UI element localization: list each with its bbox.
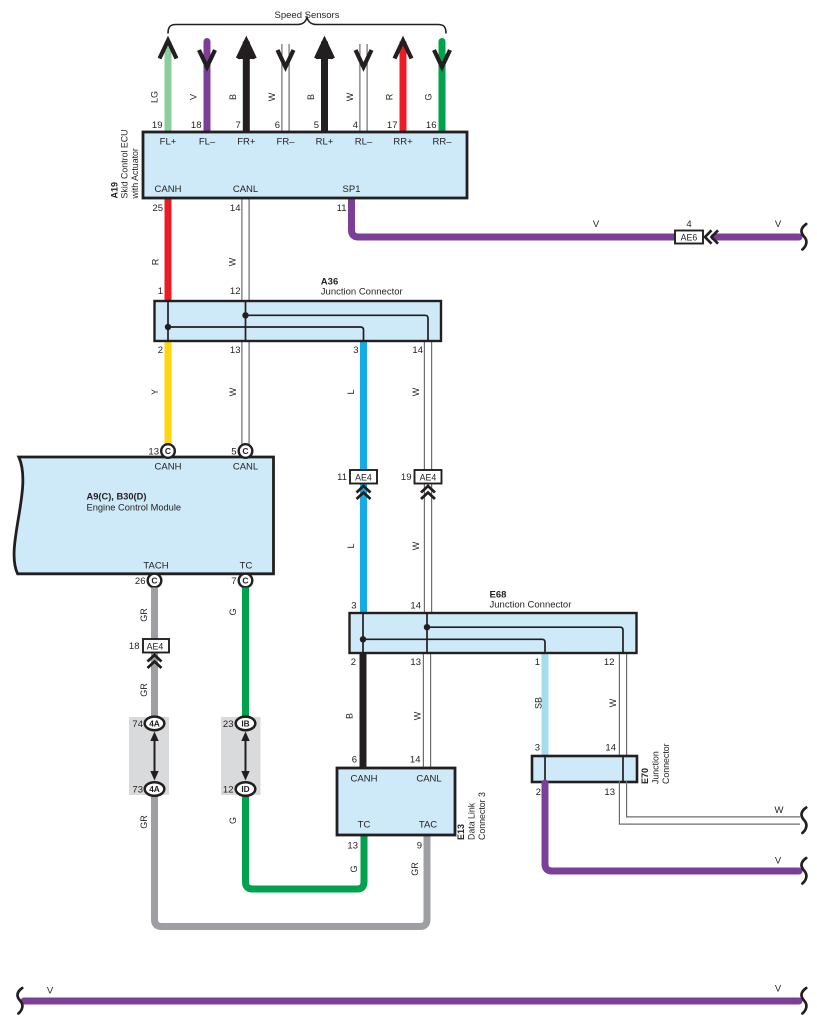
svg-text:B: B (306, 94, 316, 100)
svg-text:V: V (189, 94, 199, 100)
svg-text:G: G (228, 817, 238, 824)
svg-text:Skid Control ECU: Skid Control ECU (120, 130, 130, 199)
svg-text:SP1: SP1 (343, 184, 361, 195)
svg-text:12: 12 (604, 657, 615, 668)
svg-text:B: B (228, 94, 238, 100)
svg-text:Junction Connector: Junction Connector (321, 287, 403, 298)
svg-text:Data Link: Data Link (467, 802, 477, 840)
svg-text:E70: E70 (640, 768, 650, 784)
svg-text:2: 2 (158, 345, 163, 356)
svg-text:W: W (608, 698, 618, 707)
svg-text:G: G (228, 608, 238, 615)
svg-text:C: C (151, 576, 157, 586)
svg-text:14: 14 (410, 755, 421, 766)
svg-text:GR: GR (139, 608, 149, 622)
svg-text:5: 5 (314, 120, 319, 131)
svg-text:R: R (151, 258, 161, 265)
svg-text:V: V (47, 986, 54, 997)
svg-text:W: W (228, 387, 238, 396)
svg-text:AE6: AE6 (681, 233, 698, 243)
svg-text:CANL: CANL (416, 774, 441, 785)
svg-text:1: 1 (535, 657, 540, 668)
svg-text:18: 18 (129, 641, 140, 652)
svg-text:LG: LG (150, 91, 160, 103)
svg-text:Connector 3: Connector 3 (477, 792, 487, 840)
svg-text:RL+: RL+ (316, 137, 334, 148)
svg-text:V: V (775, 856, 782, 867)
svg-text:C: C (165, 446, 171, 456)
svg-text:R: R (385, 93, 395, 100)
svg-text:16: 16 (426, 120, 437, 131)
svg-text:3: 3 (353, 345, 358, 356)
svg-text:TC: TC (358, 820, 371, 831)
svg-text:ID: ID (241, 784, 249, 794)
svg-text:GR: GR (139, 683, 149, 697)
svg-text:4A: 4A (149, 784, 160, 794)
svg-text:GR: GR (410, 862, 420, 876)
svg-text:Junction: Junction (651, 751, 661, 784)
svg-text:A19: A19 (110, 182, 120, 199)
svg-text:3: 3 (351, 601, 356, 612)
svg-text:RL–: RL– (355, 137, 373, 148)
svg-text:23: 23 (223, 719, 234, 730)
svg-text:L: L (346, 389, 356, 394)
svg-text:11: 11 (337, 472, 347, 483)
svg-text:9: 9 (417, 841, 422, 852)
svg-text:W: W (267, 92, 277, 101)
svg-text:G: G (424, 93, 434, 100)
svg-text:TAC: TAC (419, 820, 437, 831)
svg-text:W: W (345, 92, 355, 101)
svg-text:SB: SB (534, 697, 544, 709)
svg-text:6: 6 (352, 755, 357, 766)
svg-text:73: 73 (132, 785, 143, 796)
svg-text:FR+: FR+ (237, 137, 256, 148)
svg-text:4: 4 (686, 219, 691, 230)
svg-text:W: W (411, 387, 421, 396)
svg-text:Junction Connector: Junction Connector (490, 600, 572, 611)
svg-text:CANH: CANH (155, 462, 182, 473)
svg-text:V: V (775, 219, 782, 230)
svg-text:18: 18 (191, 120, 202, 131)
svg-text:GR: GR (139, 815, 149, 829)
svg-text:FR–: FR– (277, 137, 296, 148)
svg-text:14: 14 (412, 345, 423, 356)
svg-text:26: 26 (135, 576, 146, 587)
svg-text:14: 14 (605, 743, 616, 754)
svg-text:TC: TC (240, 561, 253, 572)
svg-text:4: 4 (353, 120, 358, 131)
svg-text:RR–: RR– (432, 137, 452, 148)
svg-text:2: 2 (536, 787, 541, 798)
svg-text:with Actuator: with Actuator (130, 148, 140, 199)
svg-text:AE4: AE4 (355, 473, 372, 483)
svg-text:C: C (242, 446, 248, 456)
svg-text:2: 2 (351, 657, 356, 668)
svg-text:5: 5 (231, 447, 236, 458)
svg-text:Connector: Connector (661, 743, 671, 784)
svg-text:V: V (775, 984, 782, 995)
svg-text:AE4: AE4 (147, 642, 164, 652)
svg-text:14: 14 (230, 203, 241, 214)
svg-text:FL–: FL– (199, 137, 216, 148)
svg-text:4A: 4A (149, 718, 160, 728)
svg-text:W: W (775, 805, 784, 816)
svg-text:W: W (413, 711, 423, 720)
svg-text:Engine Control Module: Engine Control Module (87, 503, 182, 513)
svg-text:CANH: CANH (155, 184, 182, 195)
svg-text:B: B (345, 713, 355, 719)
svg-text:19: 19 (401, 472, 412, 483)
svg-text:25: 25 (152, 203, 163, 214)
svg-text:W: W (411, 541, 421, 550)
svg-text:11: 11 (337, 203, 347, 214)
svg-text:G: G (349, 865, 359, 872)
svg-text:TACH: TACH (143, 561, 168, 572)
svg-text:13: 13 (410, 657, 421, 668)
svg-text:L: L (346, 543, 356, 548)
svg-text:14: 14 (410, 601, 421, 612)
svg-text:13: 13 (230, 345, 241, 356)
svg-text:7: 7 (236, 120, 241, 131)
svg-text:IB: IB (241, 718, 249, 728)
svg-text:74: 74 (132, 719, 143, 730)
svg-text:E13: E13 (456, 824, 466, 840)
svg-text:W: W (228, 257, 238, 266)
svg-text:1: 1 (158, 286, 163, 297)
svg-text:CANL: CANL (233, 184, 258, 195)
svg-text:FL+: FL+ (160, 137, 177, 148)
svg-text:13: 13 (604, 787, 615, 798)
svg-text:13: 13 (347, 841, 358, 852)
svg-text:C: C (242, 576, 248, 586)
svg-text:12: 12 (223, 785, 234, 796)
svg-text:AE4: AE4 (420, 473, 437, 483)
svg-text:17: 17 (387, 120, 398, 131)
svg-text:12: 12 (230, 286, 241, 297)
svg-text:13: 13 (148, 447, 159, 458)
svg-text:Y: Y (150, 389, 160, 395)
svg-text:19: 19 (152, 120, 163, 131)
svg-text:3: 3 (535, 743, 540, 754)
svg-text:Speed Sensors: Speed Sensors (275, 10, 340, 21)
svg-text:A9(C), B30(D): A9(C), B30(D) (87, 492, 147, 502)
svg-text:6: 6 (275, 120, 280, 131)
svg-text:7: 7 (231, 576, 236, 587)
svg-text:RR+: RR+ (393, 137, 413, 148)
svg-text:CANH: CANH (351, 774, 378, 785)
svg-text:V: V (593, 219, 600, 230)
svg-text:CANL: CANL (233, 462, 258, 473)
